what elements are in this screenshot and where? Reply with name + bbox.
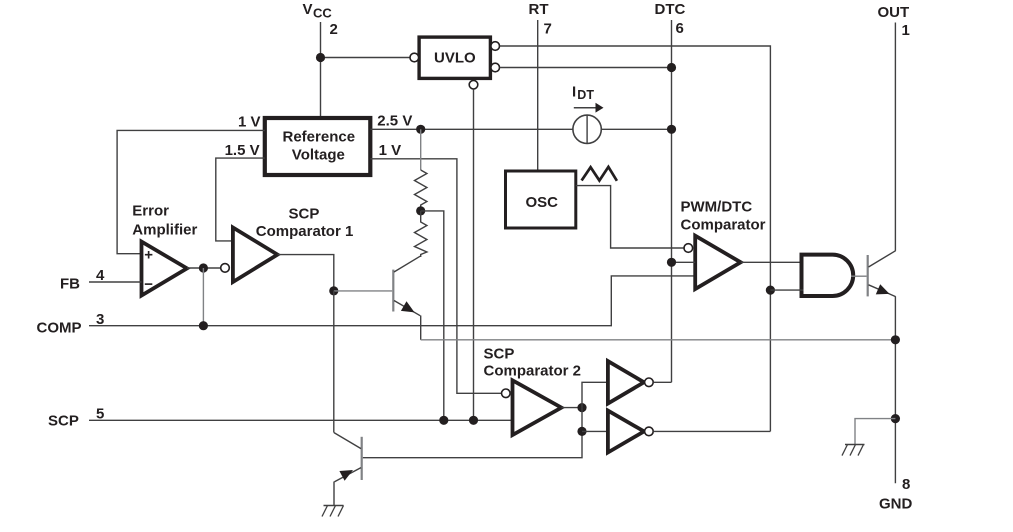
buffer inverter 2 <box>608 411 644 453</box>
svg-text:Comparator: Comparator <box>681 217 766 234</box>
label Error Amplifier <box>132 203 197 239</box>
junction SCP divider <box>439 416 448 425</box>
wire SCP comparator 2 output <box>561 407 582 409</box>
wire inverter 2 output to AND branch <box>653 430 770 432</box>
buffer inverter 1 <box>608 361 644 403</box>
junction VCC node <box>316 53 325 62</box>
wire FB pin 4 to error amplifier <box>89 281 142 283</box>
wire Q3 emitter to GND pin <box>894 296 896 483</box>
block OSC <box>506 171 576 228</box>
junction GND tee <box>891 414 900 423</box>
bubble UVLO output top-right <box>491 42 500 51</box>
svg-text:FB: FB <box>60 276 80 293</box>
svg-text:1 V: 1 V <box>379 142 402 159</box>
ground GND branch <box>842 445 865 456</box>
resistor R1 <box>415 129 427 211</box>
wire UVLO bottom-right output to DTC <box>500 67 672 69</box>
junction COMP node <box>199 321 208 330</box>
svg-text:OUT: OUT <box>878 4 910 21</box>
bubble SCP comparator 1 input <box>221 264 230 273</box>
wire Q1 emitter down <box>420 316 422 340</box>
sawtooth waveform symbol <box>582 167 617 181</box>
label PWM/DTC Comparator <box>681 199 766 234</box>
svg-text:SCP: SCP <box>48 413 79 430</box>
svg-text:RT: RT <box>529 1 549 18</box>
svg-text:UVLO: UVLO <box>434 50 476 67</box>
wire OSC output to PWM comparator <box>576 186 684 248</box>
resistor R2 <box>415 211 427 257</box>
svg-text:6: 6 <box>676 20 684 37</box>
junction DTC PWM input <box>667 258 676 267</box>
wire comparator 2 output to buffer 1 <box>582 382 608 407</box>
bubble SCP comparator 2 input <box>502 389 511 398</box>
wire VCC pin 2 vertical <box>320 22 322 118</box>
svg-text:−: − <box>144 276 153 293</box>
junction SCP1 output node <box>329 286 338 295</box>
svg-text:1: 1 <box>902 22 910 39</box>
svg-text:PWM/DTC: PWM/DTC <box>681 199 753 216</box>
label IDT <box>572 84 594 103</box>
op-amp error amplifier <box>142 242 188 296</box>
junction 2.5V resistor tap <box>416 125 425 134</box>
junction Q3 emitter rail <box>891 335 900 344</box>
wire UVLO bottom output down to SCP net <box>473 89 475 420</box>
wire DTC to PWM comparator input <box>672 261 696 263</box>
wire VCC to UVLO input <box>321 57 410 59</box>
op-amp SCP comparator 2 <box>513 380 562 435</box>
junction UVLO-DTC <box>667 63 676 72</box>
junction error amplifier output <box>199 263 208 272</box>
transistor Q2 <box>334 433 362 482</box>
wire 1.5V to SCP comparator 1 input <box>216 158 265 241</box>
svg-text:2: 2 <box>330 21 338 38</box>
label SCP Comparator 2 <box>484 346 582 380</box>
wire UVLO top output to AND branch <box>500 46 771 431</box>
wire DTC net vertical <box>671 20 673 382</box>
block Reference Voltage <box>265 118 371 175</box>
wire GND branch to ground <box>855 419 895 445</box>
junction resistor divider tap <box>416 206 425 215</box>
wire Q1 base <box>334 290 392 292</box>
svg-text:1.5 V: 1.5 V <box>225 142 260 159</box>
svg-text:OSC: OSC <box>526 194 559 211</box>
junction comparator 2 output <box>577 403 586 412</box>
svg-text:GND: GND <box>879 496 913 513</box>
svg-text:Voltage: Voltage <box>292 147 345 164</box>
wire current source to DTC <box>601 128 671 130</box>
wire OUT pin 1 vertical <box>894 23 896 251</box>
bubble inverter 2 output <box>645 427 654 436</box>
wire 1V to SCP comparator 2 input <box>370 159 501 393</box>
svg-text:Comparator 1: Comparator 1 <box>256 223 354 240</box>
op-amp PWM/DTC comparator <box>695 236 741 289</box>
wire SCP comparator 1 output to Q1/Q2 <box>278 255 334 291</box>
op-amp SCP comparator 1 <box>233 228 278 283</box>
wire error amplifier output <box>187 267 221 269</box>
wire 1V to error amplifier + input <box>117 130 265 253</box>
bubble UVLO output bottom-right <box>491 63 500 72</box>
wire divider tap to SCP net <box>421 211 444 420</box>
svg-text:SCP: SCP <box>484 346 515 363</box>
arrow IDT direction <box>574 103 604 113</box>
wire AND output to Q3 base <box>851 275 867 277</box>
svg-text:V: V <box>303 1 313 18</box>
svg-text:DTC: DTC <box>655 1 686 18</box>
svg-text:1 V: 1 V <box>238 114 261 131</box>
transistor Q3 <box>868 251 896 297</box>
wire 2.5V to current source <box>370 128 573 130</box>
svg-text:Reference: Reference <box>283 129 356 146</box>
wire buffer 2 input <box>582 430 608 432</box>
wire inverter 1 output to DTC net <box>653 381 671 383</box>
svg-text:+: + <box>144 246 153 263</box>
bubble PWM comparator input <box>684 244 693 253</box>
junction buffer 2 input <box>577 427 586 436</box>
wire SCP pin 5 to comparator 2 <box>89 419 513 421</box>
svg-text:SCP: SCP <box>289 206 320 223</box>
svg-text:7: 7 <box>544 21 552 38</box>
svg-text:I: I <box>572 84 576 101</box>
svg-text:COMP: COMP <box>37 320 82 337</box>
svg-text:8: 8 <box>902 476 910 493</box>
wire Q1 emitter rail to output transistor <box>421 339 896 341</box>
bubble UVLO output bottom <box>469 80 478 89</box>
svg-text:DT: DT <box>577 88 594 102</box>
svg-text:Error: Error <box>132 203 169 220</box>
junction SCP UVLO <box>469 416 478 425</box>
pin VCC label <box>303 1 333 21</box>
svg-text:2.5 V: 2.5 V <box>377 113 412 130</box>
wire comparator 2 output to buffer 2 and Q2 base <box>363 408 582 458</box>
wire RT pin 7 to OSC <box>537 20 539 171</box>
svg-text:CC: CC <box>313 6 332 21</box>
bubble UVLO input left <box>410 53 419 62</box>
wire node to Q2 collector <box>333 291 335 433</box>
junction AND lower input <box>766 286 775 295</box>
label SCP Comparator 1 <box>256 206 354 241</box>
wire COMP pin 3 to PWM comparator <box>89 276 695 326</box>
wire error output to COMP <box>202 268 204 326</box>
op-amp UVLO box <box>419 37 490 78</box>
svg-text:Comparator 2: Comparator 2 <box>484 363 582 380</box>
ground Q2 <box>322 506 344 517</box>
svg-text:Amplifier: Amplifier <box>132 222 197 239</box>
wire Q2 emitter to ground <box>333 482 335 506</box>
current source IDT <box>573 115 601 143</box>
wire AND lower input <box>770 289 803 291</box>
AND gate <box>802 255 854 296</box>
transistor Q1 <box>393 256 420 316</box>
bubble inverter 1 output <box>645 378 654 387</box>
wire PWM comparator output to AND <box>741 261 804 263</box>
junction current source DTC <box>667 125 676 134</box>
